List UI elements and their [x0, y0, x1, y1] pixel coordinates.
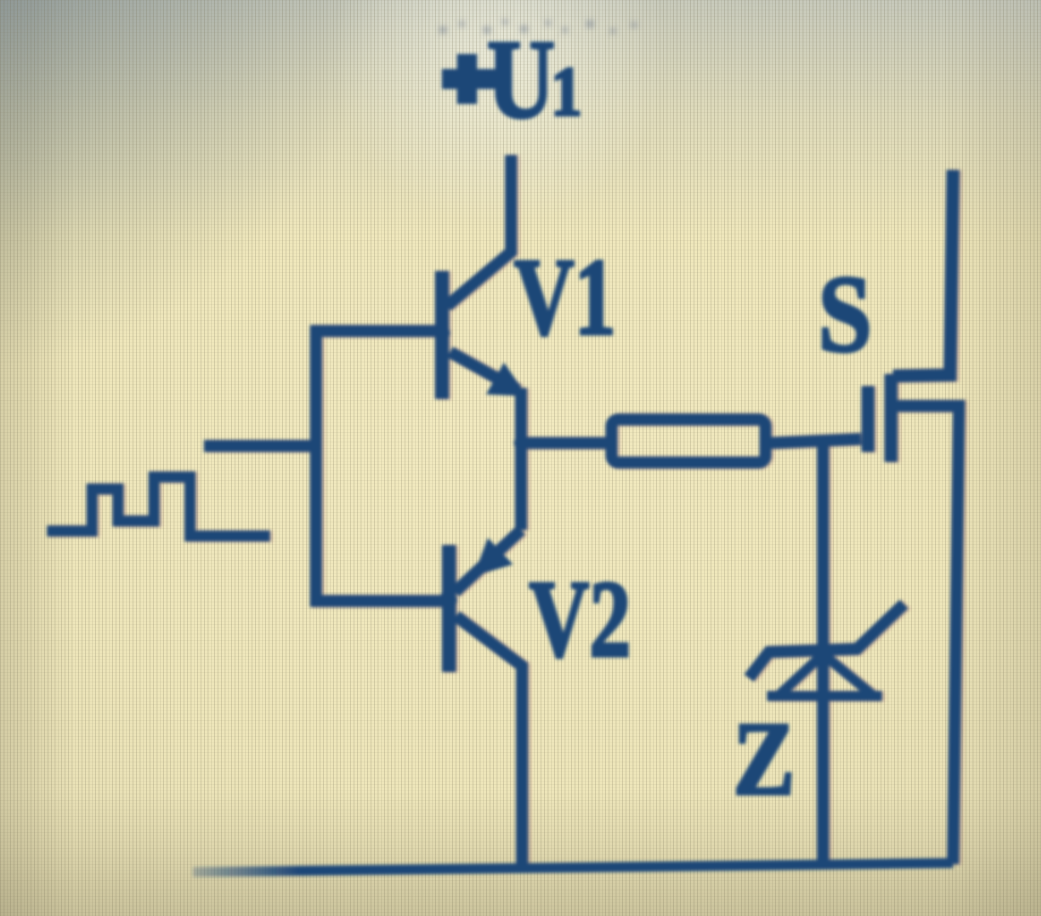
MOSFET S source wire down to ground	[897, 406, 959, 864]
svg-text:1: 1	[551, 54, 582, 131]
MOSFET S gate bar	[862, 386, 875, 452]
zener diode Z cathode bar with bent tails	[749, 604, 904, 678]
wire (fringe copy)	[450, 156, 514, 307]
transistor V1 emitter arrow	[490, 366, 524, 394]
svg-text:V2: V2	[529, 558, 631, 680]
transistor V2 collector down to ground rail	[456, 616, 522, 868]
MOSFET S channel bar	[885, 374, 898, 462]
svg-text:V1: V1	[514, 236, 616, 358]
node: push-pull output vertical	[515, 388, 527, 530]
transistor V2 emitter arrow	[477, 542, 509, 573]
faint ghost marks above +U1 (photo artifact)	[439, 19, 637, 34]
junction blob push-pull output	[514, 436, 528, 450]
transistor V1 base bar	[435, 271, 449, 399]
wire: zener branch vertical	[817, 439, 829, 866]
junction blob gate/zener tee	[815, 435, 829, 449]
zener junction blob	[815, 644, 831, 660]
svg-text:U: U	[487, 18, 555, 142]
wire: output to resistor	[518, 437, 608, 449]
label +U1 plus sign	[442, 54, 497, 104]
wire: base coupling C-shape (V1 base to left rail to V2 base)	[316, 331, 447, 601]
svg-text:Z: Z	[733, 700, 795, 817]
transistor V2 base bar	[442, 545, 456, 672]
transistor V2 emitter	[455, 530, 521, 592]
svg-text:S: S	[818, 253, 872, 375]
resistor R (gate resistor)	[612, 420, 766, 463]
supply net +U1 lead from +U1 to V1 collector	[447, 155, 511, 306]
MOSFET S drain wire up	[893, 170, 953, 376]
input square-wave symbol	[47, 477, 270, 536]
junction blob V1 base	[434, 325, 450, 341]
junction blob V2 base	[439, 591, 457, 609]
wire: resistor to gate	[771, 439, 861, 443]
ground/bottom wire	[193, 863, 953, 872]
zener diode Z anode triangle	[767, 654, 882, 697]
transistor V1 emitter	[450, 352, 518, 390]
wire: input lead to left rail	[204, 440, 316, 452]
